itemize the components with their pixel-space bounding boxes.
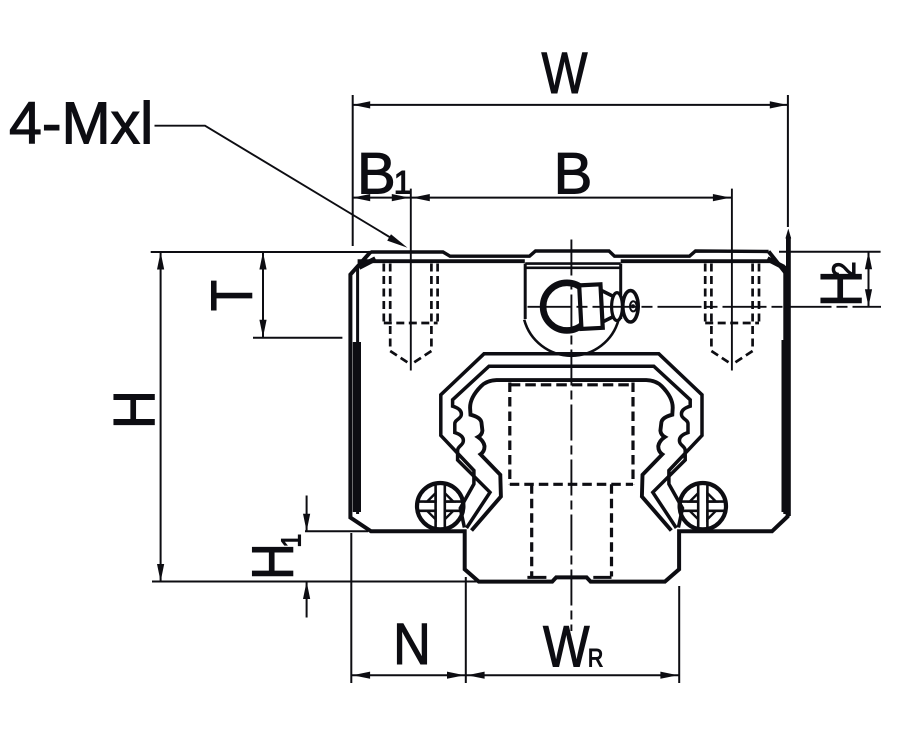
- thread OD hidden lines: [384, 264, 438, 323]
- counterbore top hidden edge: [510, 383, 633, 386]
- dimension W line: [353, 104, 788, 106]
- drill hidden lines: [711, 264, 752, 350]
- grease nipple tip center dot: [631, 304, 635, 308]
- svg-text:N: N: [393, 611, 431, 676]
- leader line 4-Mxl: [155, 126, 403, 245]
- label N: [393, 611, 431, 676]
- thread OD hidden lines: [705, 264, 759, 323]
- dimension H line: [160, 252, 162, 582]
- grease boss sides: [525, 264, 621, 319]
- grease nipple tip: [623, 291, 638, 322]
- bolt through-hole hidden lines: [532, 484, 612, 576]
- label H1: [240, 534, 306, 580]
- counterbore bottom hidden line: [510, 483, 633, 486]
- label T: [200, 280, 265, 311]
- ball cross vertical bar: [436, 484, 445, 529]
- ball cross horizontal bar: [680, 502, 725, 511]
- label H: [101, 390, 166, 429]
- dimension T line: [262, 252, 264, 337]
- rail profile left (gothic grooves): [470, 380, 571, 530]
- cavity contour B left (seal lip): [453, 366, 572, 528]
- side seal strip left: [353, 342, 361, 512]
- W extension lines: [353, 95, 788, 246]
- dimension N / WR line: [351, 674, 679, 676]
- end-seal inner line right: [768, 258, 785, 514]
- rail bolt hole hidden lines: [510, 383, 633, 577]
- ball retainer wedges: [427, 493, 453, 519]
- svg-text:4-Mxl: 4-Mxl: [9, 90, 153, 156]
- grease nipple tip inner ring: [630, 301, 637, 311]
- rail profile right: [571, 380, 672, 530]
- leader arrowhead: [387, 234, 407, 248]
- svg-text:W: W: [542, 42, 588, 106]
- body top line: [358, 259, 771, 263]
- B and B1 arrowheads: [353, 194, 731, 201]
- baseline reference line: [152, 581, 479, 583]
- W arrowheads: [353, 101, 788, 108]
- grease nipple ball head: [543, 283, 591, 331]
- block outer profile: [350, 252, 787, 582]
- ball cross vertical bar: [698, 484, 707, 529]
- H2 arrowheads: [865, 252, 872, 307]
- side seal strip right: [782, 340, 788, 512]
- end-seal chamfer wedge left: [359, 259, 376, 268]
- H arrowheads: [157, 252, 164, 582]
- cavity contours (both sides mirrored): [441, 354, 572, 531]
- rail hole bottom hidden feet: [527, 576, 611, 579]
- left mounting hole hidden lines: [384, 264, 438, 365]
- svg-text:B: B: [554, 142, 593, 207]
- label WR: [543, 615, 603, 680]
- ball retainer wedges: [690, 493, 716, 519]
- grease nipple cone end ellipse: [612, 293, 623, 321]
- dimension H2 line: [868, 252, 870, 307]
- drill point V: [711, 351, 752, 365]
- dimension H1 lines: [306, 496, 308, 618]
- cavity contour A left (block inner wall): [441, 354, 572, 528]
- H1 top reference line: [305, 530, 368, 532]
- grease nipple cone: [602, 291, 615, 323]
- WR right extension line: [678, 586, 680, 683]
- thread end hidden line: [384, 322, 438, 325]
- right edge thick bar with up arrow: [786, 237, 791, 516]
- H top reference line: [151, 251, 371, 253]
- H1 arrowheads: [303, 514, 310, 599]
- right mounting hole hidden lines: [705, 264, 759, 365]
- grease nipple hex body: [579, 284, 603, 329]
- T bottom reference line: [253, 337, 342, 339]
- ball symbol right: [680, 483, 726, 529]
- dimension B and B1 line: [353, 197, 732, 199]
- hole centerline left: [410, 189, 412, 371]
- end-seal inner line left: [358, 258, 375, 514]
- drill hidden lines: [390, 264, 431, 350]
- thread end hidden line: [705, 322, 759, 325]
- grease boss shoulder lines: [525, 264, 621, 268]
- cavity contour B right: [571, 366, 690, 528]
- counterbore hidden side lines: [510, 383, 633, 485]
- ball symbol left: [417, 483, 463, 529]
- svg-text:H: H: [101, 390, 166, 429]
- T arrowheads: [259, 252, 266, 337]
- drill point V: [390, 351, 431, 365]
- centerline horizontal (nipple axis): [528, 306, 882, 308]
- ball cross horizontal bar: [418, 502, 463, 511]
- svg-text:T: T: [200, 280, 265, 311]
- grease boss circle lower arc: [524, 320, 618, 356]
- label W: [542, 42, 588, 106]
- label H2: [809, 262, 874, 307]
- N and WR arrowheads: [353, 672, 678, 679]
- hole centerline right: [731, 189, 733, 371]
- centerline vertical: [570, 240, 572, 632]
- block top surface with plateaus: [371, 251, 769, 256]
- N extension lines: [351, 533, 466, 683]
- H2 top reference line: [779, 251, 881, 253]
- end-seal chamfer wedge right: [767, 259, 784, 268]
- cavity contour A right: [571, 354, 702, 528]
